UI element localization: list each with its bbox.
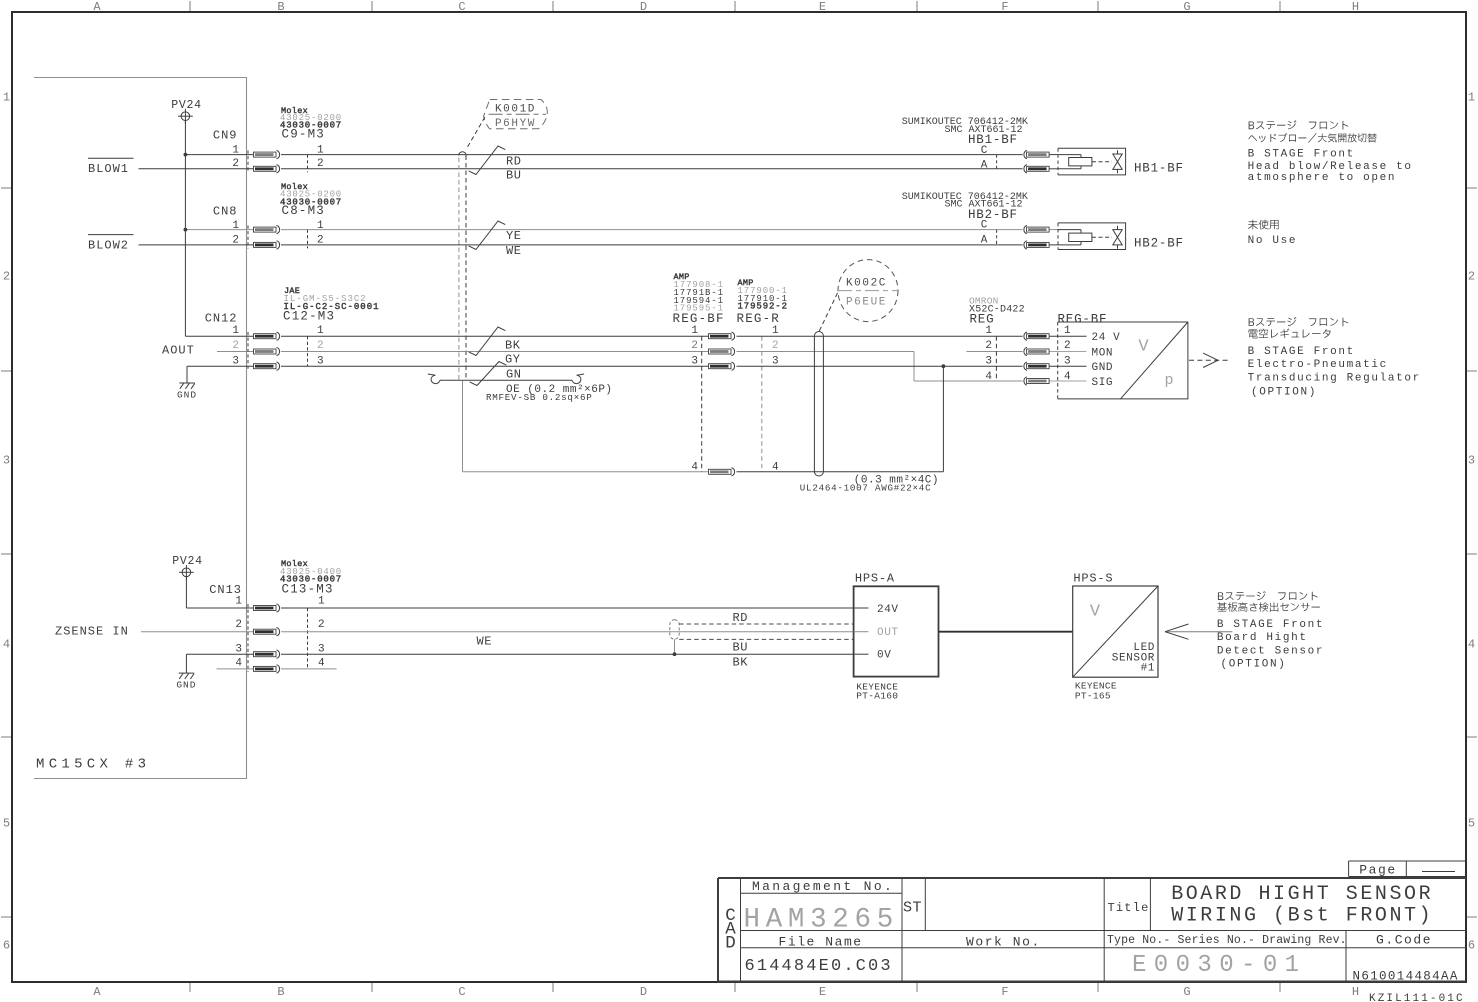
terminal CN13-3: [254, 650, 280, 658]
wire RD (dashed) to HPS-A: [679, 623, 853, 625]
cable label UL2464: [800, 483, 932, 494]
terminal HB1-A: [1024, 165, 1049, 173]
connector C8-M3 housing line: [307, 230, 309, 249]
note not used (JP): [1248, 220, 1279, 230]
device REG-BF pin stubs: [1050, 336, 1087, 381]
note B STAGE Front regulator (EN): [1248, 346, 1421, 398]
svg-text:P6HYW: P6HYW: [495, 118, 536, 130]
wire color label BK: [733, 655, 749, 669]
terminal CN8-1: [254, 225, 280, 233]
svg-text:3: 3: [1468, 453, 1475, 467]
svg-text:BU: BU: [733, 641, 749, 655]
svg-text:C12-M3: C12-M3: [283, 310, 335, 324]
leader K001D to cable: [459, 117, 485, 156]
svg-text:3: 3: [1064, 355, 1071, 367]
terminal REG-3: [1024, 362, 1049, 370]
device HPS-A part labels: [856, 682, 898, 702]
connector C12-M3 pin numbers: [317, 325, 324, 368]
device REG-BF pin numbers: [1064, 325, 1071, 383]
svg-text:V: V: [1090, 603, 1101, 622]
node junction pair drain: [673, 652, 677, 656]
svg-text:D: D: [640, 985, 647, 999]
svg-text:Title: Title: [1108, 901, 1150, 915]
wire color label BU: [733, 641, 749, 655]
svg-text:B: B: [277, 0, 284, 14]
terminal HB1-C: [1024, 150, 1049, 158]
svg-text:24 V: 24 V: [1092, 332, 1121, 344]
svg-text:HAM3265: HAM3265: [744, 904, 899, 935]
svg-text:E: E: [819, 0, 826, 14]
wire pair drain to 0V: [674, 639, 676, 654]
balloon K002C/P6EUE: [838, 260, 898, 322]
svg-text:2: 2: [232, 340, 239, 352]
wire color mark GN/OE (slash): [470, 362, 507, 386]
svg-text:GND: GND: [176, 680, 196, 691]
wire color label GY: [505, 353, 521, 367]
svg-text:No Use: No Use: [1248, 235, 1298, 247]
title block CAD label: [725, 906, 736, 954]
svg-text:Detect Sensor: Detect Sensor: [1217, 646, 1324, 658]
svg-text:4: 4: [318, 658, 325, 670]
terminal REG-2: [1024, 347, 1049, 355]
svg-text:1: 1: [691, 325, 698, 337]
power symbol PV24 (bottom): [172, 555, 202, 580]
title block grid: [718, 878, 1466, 982]
svg-text:3: 3: [317, 355, 324, 367]
svg-text:MON: MON: [1092, 347, 1114, 359]
svg-text:ZSENSE IN: ZSENSE IN: [55, 624, 129, 638]
device HPS-S part labels: [1075, 681, 1117, 702]
connector CN13 label: [209, 583, 242, 597]
svg-text:5: 5: [3, 816, 10, 830]
svg-text:179592-2: 179592-2: [738, 302, 788, 312]
svg-text:GN: GN: [506, 367, 522, 381]
title block G code N610014484AA: [1353, 970, 1459, 984]
svg-text:3: 3: [691, 355, 698, 367]
svg-text:C8-M3: C8-M3: [282, 204, 326, 218]
svg-text:3: 3: [772, 355, 779, 367]
sheet code KZIL111-01C: [1369, 993, 1465, 1002]
connector REG pin numbers: [985, 325, 992, 383]
connector CN13 pin numbers: [235, 596, 242, 670]
svg-text:(OPTION): (OPTION): [1221, 659, 1287, 671]
svg-text:4: 4: [1468, 637, 1475, 651]
svg-text:PV24: PV24: [172, 555, 202, 568]
svg-text:D: D: [725, 934, 736, 954]
cable shield OE with curled ends: [428, 374, 584, 384]
svg-text:BK: BK: [733, 655, 749, 669]
wire PV24 to CN13 pin1: [186, 577, 253, 608]
svg-text:WE: WE: [477, 635, 493, 649]
svg-text:RD: RD: [733, 611, 749, 625]
svg-text:H: H: [1352, 985, 1359, 999]
wire color mark RD/BU (slash): [469, 146, 506, 175]
terminal CN13-4: [254, 665, 280, 673]
connector REG-R labels: [737, 278, 788, 326]
terminal REG-BF-4: [709, 468, 735, 476]
svg-text:1: 1: [317, 220, 324, 232]
svg-text:E: E: [819, 985, 826, 999]
page box: [1349, 861, 1466, 877]
svg-text:A: A: [981, 235, 988, 247]
wire CN12-2 to REG-BF-2 (GY): [281, 351, 709, 353]
connector REG-BF labels: [673, 272, 725, 326]
svg-text:2: 2: [317, 235, 324, 247]
svg-text:K001D: K001D: [495, 103, 536, 115]
device REG-BF electro-pneumatic regulator box: [1058, 312, 1188, 399]
svg-text:D: D: [640, 0, 647, 14]
device HPS-S V mark: [1090, 603, 1101, 622]
terminal CN12-1: [254, 332, 280, 340]
svg-text:4: 4: [691, 461, 698, 473]
svg-text:KZIL111-01C: KZIL111-01C: [1369, 993, 1465, 1002]
connector REG-BF pin numbers: [691, 325, 698, 474]
device HPS-S label: [1073, 572, 1113, 586]
wire color mark BK/GY (slash): [469, 327, 506, 356]
solenoid valve HB1-BF: [1058, 148, 1126, 175]
cable label OE: [506, 384, 613, 396]
svg-text:PV24: PV24: [171, 99, 201, 112]
connector CN12 label: [205, 311, 238, 325]
svg-text:5: 5: [1468, 816, 1475, 830]
net label BLOW1: [88, 158, 134, 176]
connector REG labels: [969, 295, 1025, 326]
terminal REG-1: [1024, 332, 1049, 340]
title block Title label: [1108, 901, 1150, 915]
wire CN13-2 to HPS-A OUT (WE): [281, 631, 854, 633]
cable boundary dashed line (black): [465, 156, 467, 380]
svg-text:2: 2: [691, 340, 698, 352]
connector CN8 mating line: [247, 226, 249, 249]
wire CN8 pin1 to HB2 C: [281, 229, 1023, 231]
svg-text:1: 1: [1064, 325, 1071, 337]
title block Type No header: [1107, 934, 1347, 947]
wire REG-R-1 to REG-1 (24V): [737, 335, 1023, 337]
svg-text:GND: GND: [177, 390, 197, 401]
svg-text:4: 4: [1064, 371, 1071, 383]
svg-text:Page: Page: [1359, 862, 1396, 877]
svg-text:(OPTION): (OPTION): [1251, 386, 1317, 398]
svg-text:2: 2: [3, 269, 10, 283]
terminal REG-BF-1: [709, 332, 735, 340]
connector CN9 label: [213, 128, 238, 142]
svg-text:1: 1: [985, 325, 992, 337]
svg-text:1: 1: [772, 325, 779, 337]
net label BLOW2: [88, 235, 134, 253]
power symbol PV24 (top): [171, 99, 201, 124]
title block Management No. header: [752, 879, 894, 894]
ground GND (CN13): [176, 654, 196, 691]
title block drawing title: [1171, 883, 1433, 928]
svg-text:614484E0.C03: 614484E0.C03: [745, 957, 893, 976]
svg-text:24V: 24V: [877, 604, 899, 616]
svg-text:OUT: OUT: [877, 627, 899, 639]
svg-text:atmosphere to open: atmosphere to open: [1248, 172, 1397, 184]
svg-text:BLOW2: BLOW2: [88, 238, 129, 252]
svg-text:C: C: [981, 145, 988, 157]
cable label 0.3mm2x4C: [854, 475, 939, 487]
device HPS-S labels LED SENSOR #1: [1112, 642, 1155, 674]
wire color label BU: [506, 168, 522, 182]
connector CN12 pin numbers: [232, 325, 239, 368]
svg-text:G.Code: G.Code: [1376, 933, 1432, 948]
wire HB2 C into valve: [1050, 229, 1059, 231]
note B STAGE Front sensor (EN): [1217, 619, 1324, 671]
svg-text:F: F: [1001, 0, 1008, 14]
svg-text:A: A: [981, 160, 988, 172]
svg-text:2: 2: [235, 619, 242, 631]
svg-text:BU: BU: [506, 168, 522, 182]
net label AOUT: [162, 344, 195, 358]
svg-text:G: G: [1183, 0, 1190, 14]
connector C12-M3 labels: [283, 286, 380, 324]
svg-text:2: 2: [232, 158, 239, 170]
wire HB1 C into valve: [1050, 154, 1059, 156]
svg-text:Head blow/Release to: Head blow/Release to: [1248, 161, 1413, 173]
cable boundary dashed line (grey): [458, 158, 460, 381]
svg-text:3: 3: [232, 355, 239, 367]
terminal CN12-2: [254, 347, 280, 355]
title block Work No. header: [966, 935, 1041, 950]
device REG-BF pin labels: [1092, 332, 1121, 389]
svg-text:HPS-A: HPS-A: [855, 572, 895, 586]
svg-text:3: 3: [235, 643, 242, 655]
svg-text:2: 2: [232, 235, 239, 247]
svg-text:1: 1: [318, 596, 325, 608]
svg-text:A: A: [93, 985, 101, 999]
svg-text:F: F: [1001, 985, 1008, 999]
svg-text:3: 3: [3, 453, 10, 467]
wire CN13-3 to HPS-A 0V (BK): [186, 653, 853, 655]
terminal CN8-2: [254, 241, 280, 249]
wire color label YE: [506, 229, 522, 243]
svg-text:H: H: [1352, 0, 1359, 14]
svg-text:1: 1: [317, 145, 324, 157]
svg-text:E0030-01: E0030-01: [1132, 952, 1306, 979]
connector C9-M3 labels: [280, 106, 342, 142]
connector C8-M3 pin numbers: [317, 220, 324, 246]
svg-text:C: C: [458, 985, 465, 999]
wire shield drain to REG-BF-4: [463, 381, 709, 472]
wire REG-R-3 to REG-3 (GND): [737, 365, 1023, 367]
svg-text:SIG: SIG: [1092, 377, 1114, 389]
device HPS-A label: [855, 572, 895, 586]
note No Use (EN): [1248, 235, 1298, 247]
terminal REG-4: [1024, 377, 1049, 385]
note Bstage front regulator (JP): [1248, 317, 1348, 338]
svg-text:4: 4: [985, 371, 992, 383]
wire BLOW2 to CN8 pin2: [139, 244, 254, 246]
svg-text:P6EUE: P6EUE: [846, 297, 887, 309]
terminal HB2-C: [1024, 225, 1049, 233]
terminal REG-BF-2: [709, 347, 735, 355]
device HPS-A pin labels: [877, 604, 899, 662]
svg-text:1: 1: [232, 220, 239, 232]
svg-text:2: 2: [1468, 269, 1475, 283]
svg-text:MC15CX #3: MC15CX #3: [36, 757, 150, 773]
connector REG mating line: [995, 336, 997, 381]
node junction CN9 pin1: [184, 153, 188, 157]
MC15CX #3 board outline: [34, 78, 247, 779]
svg-text:BK: BK: [505, 338, 521, 352]
svg-text:Work No.: Work No.: [966, 935, 1041, 950]
wire color label BK: [505, 338, 521, 352]
title block File Name header: [779, 935, 863, 950]
pneumatic output arrow (dashed): [1189, 353, 1230, 367]
svg-text:2: 2: [317, 158, 324, 170]
connector CN13 mating line: [247, 604, 249, 672]
balloon K001D/P6HYW: [484, 100, 548, 130]
wire CN13-1 to HPS-A 24V: [281, 607, 854, 609]
wire CN9 pin2 to HB1 A: [281, 168, 1023, 170]
wire color mark YE/WE (slash): [469, 221, 506, 250]
device label HB2-BF: [1134, 237, 1184, 251]
svg-text:B STAGE Front: B STAGE Front: [1217, 619, 1324, 631]
connector HB2-BF mating line: [996, 230, 998, 246]
connector C13-M3 labels: [280, 559, 342, 597]
wire color label RD: [506, 155, 522, 169]
device HPS-A pin ticks: [854, 608, 869, 654]
connector C9-M3 housing line: [307, 155, 309, 173]
svg-text:G: G: [1183, 985, 1190, 999]
title block drawing number E0030-01: [1132, 952, 1306, 979]
svg-text:WIRING (Bst FRONT): WIRING (Bst FRONT): [1171, 905, 1433, 928]
note Bstage front head blow (JP): [1248, 120, 1376, 142]
svg-text:PT-165: PT-165: [1075, 690, 1111, 701]
wire MON stub: [966, 351, 1022, 353]
connector C13-M3 pin numbers: [318, 596, 325, 670]
wire BU (dashed) to HPS-A: [679, 638, 853, 640]
connector HB2-BF labels: [902, 192, 1028, 247]
svg-text:Board Hight: Board Hight: [1217, 632, 1308, 644]
connector CN12 mating line: [247, 332, 249, 370]
sensor beam arrow: [1165, 624, 1232, 639]
svg-text:2: 2: [317, 340, 324, 352]
title block ST label: [903, 900, 922, 917]
svg-text:p: p: [1164, 372, 1173, 389]
wire color label WE: [506, 244, 522, 258]
svg-text:4: 4: [3, 637, 10, 651]
svg-text:1: 1: [232, 325, 239, 337]
svg-text:Management No.: Management No.: [752, 879, 894, 894]
note Bstage front board height sensor (JP): [1217, 591, 1320, 612]
svg-text:BLOW1: BLOW1: [88, 162, 129, 176]
svg-text:#1: #1: [1141, 662, 1155, 674]
ground GND (CN12): [177, 366, 197, 401]
wire HB2 A into valve: [1050, 244, 1059, 246]
svg-text:Transducing Regulator: Transducing Regulator: [1248, 373, 1421, 385]
connector C9-M3 pin numbers: [317, 145, 324, 170]
connector CN9 pin numbers: [232, 145, 239, 170]
wire PV24 vertical bus: [185, 121, 253, 337]
svg-text:REG-BF: REG-BF: [673, 312, 725, 326]
svg-text:C13-M3: C13-M3: [282, 583, 334, 597]
svg-text:AOUT: AOUT: [162, 344, 195, 358]
svg-text:BOARD HIGHT SENSOR: BOARD HIGHT SENSOR: [1171, 883, 1433, 906]
svg-text:C: C: [458, 0, 465, 14]
svg-text:1: 1: [3, 90, 10, 104]
twisted pair sheath capsule: [670, 620, 679, 640]
terminal CN12-3: [254, 362, 280, 370]
svg-text:C: C: [981, 220, 988, 232]
solenoid valve HB2-BF: [1058, 223, 1126, 250]
svg-text:HB1-BF: HB1-BF: [1134, 162, 1184, 176]
wire ZSENSE IN to CN13 pin2: [141, 631, 254, 633]
wire CN8 pin2 to HB2 A: [281, 244, 1023, 246]
svg-text:B STAGE Front: B STAGE Front: [1248, 149, 1355, 161]
svg-text:ST: ST: [903, 900, 922, 917]
wire CN12-1 to REG-BF-1 (BK): [281, 335, 709, 337]
svg-text:File Name: File Name: [779, 935, 863, 950]
terminal CN13-2: [254, 628, 280, 636]
svg-text:A: A: [93, 0, 101, 14]
terminal REG-BF-3: [709, 362, 735, 370]
svg-text:3: 3: [985, 355, 992, 367]
device HPS-A amplifier box: [854, 586, 939, 676]
leader K002C to cable: [819, 293, 838, 332]
node junction CN8 pin1: [184, 228, 188, 232]
svg-text:CN12: CN12: [205, 311, 238, 325]
connector REG-BF mating line: [701, 336, 703, 472]
connector C13-M3 housing line: [307, 608, 309, 669]
terminal HB2-A: [1024, 241, 1049, 249]
svg-text:Type No.- Series No.- Drawing: Type No.- Series No.- Drawing Rev.: [1107, 934, 1347, 947]
note B STAGE Front head blow (EN): [1248, 149, 1413, 184]
svg-text:2: 2: [772, 340, 779, 352]
wire REG-R-2 to REG-4 (SIG): [737, 352, 1023, 382]
node junction GND/shield: [942, 364, 946, 368]
svg-text:1: 1: [235, 596, 242, 608]
net label ZSENSE IN: [55, 624, 129, 638]
wire CN13-4 stub: [217, 668, 337, 670]
svg-text:N610014484AA: N610014484AA: [1353, 970, 1459, 984]
title block management number HAM3265: [744, 904, 899, 935]
svg-text:YE: YE: [506, 229, 522, 243]
svg-text:HB2-BF: HB2-BF: [1134, 237, 1184, 251]
wire HPS-A OUT to HPS-S: [939, 631, 1073, 633]
connector CN8 label: [213, 204, 238, 218]
svg-text:HB1-BF: HB1-BF: [968, 133, 1018, 147]
terminal CN13-1: [254, 604, 280, 612]
svg-text:V: V: [1138, 338, 1149, 357]
svg-text:RMFEV-SB 0.2sq×6P: RMFEV-SB 0.2sq×6P: [486, 392, 592, 403]
cable sheath capsule: [814, 332, 823, 477]
wire color label WE: [477, 635, 493, 649]
svg-text:2: 2: [985, 340, 992, 352]
svg-text:1: 1: [1468, 90, 1475, 104]
svg-text:GND: GND: [1092, 362, 1114, 374]
connector REG-R pin numbers: [772, 325, 779, 474]
connector C8-M3 labels: [280, 182, 342, 218]
wire bus to CN9 pin1: [185, 154, 253, 156]
svg-text:K002C: K002C: [846, 277, 887, 289]
svg-text:CN9: CN9: [213, 128, 238, 142]
device label HB1-BF: [1134, 162, 1184, 176]
wire HB1 A into valve: [1050, 168, 1059, 170]
connector C12-M3 housing line: [307, 336, 309, 366]
svg-text:Electro-Pneumatic: Electro-Pneumatic: [1248, 359, 1388, 371]
svg-text:1: 1: [232, 145, 239, 157]
wire color label GN: [506, 367, 522, 381]
connector HB1-BF labels: [902, 117, 1028, 172]
svg-text:0V: 0V: [877, 650, 891, 662]
terminal CN9-1: [254, 150, 280, 158]
connector CN9 mating line: [247, 151, 249, 173]
wire color label RD: [733, 611, 749, 625]
svg-text:RD: RD: [506, 155, 522, 169]
cable label RMFEV-SB: [486, 392, 592, 403]
svg-text:6: 6: [1468, 938, 1475, 952]
